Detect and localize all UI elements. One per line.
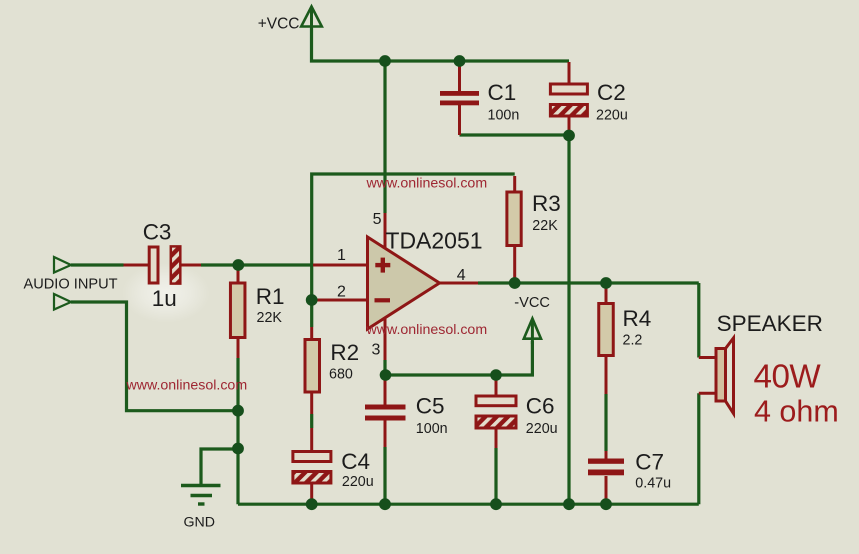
svg-text:40W: 40W	[754, 359, 822, 396]
svg-text:220u: 220u	[342, 474, 374, 490]
svg-text:5: 5	[373, 211, 382, 228]
svg-text:100n: 100n	[416, 421, 448, 437]
svg-text:1u: 1u	[152, 286, 177, 311]
svg-text:220u: 220u	[526, 421, 558, 437]
svg-text:C5: C5	[416, 394, 445, 419]
svg-text:C7: C7	[635, 450, 664, 475]
svg-text:22K: 22K	[257, 310, 283, 326]
svg-text:100n: 100n	[488, 107, 520, 123]
svg-text:C6: C6	[526, 394, 555, 419]
svg-text:C3: C3	[143, 220, 172, 245]
svg-text:4 ohm: 4 ohm	[754, 394, 839, 428]
svg-text:AUDIO INPUT: AUDIO INPUT	[24, 277, 118, 293]
svg-text:4: 4	[457, 267, 466, 284]
svg-text:R2: R2	[330, 340, 359, 365]
svg-text:R4: R4	[623, 306, 652, 331]
svg-text:22K: 22K	[532, 218, 558, 234]
svg-text:C1: C1	[488, 80, 517, 105]
svg-text:-VCC: -VCC	[514, 295, 550, 311]
svg-text:2: 2	[337, 284, 346, 301]
svg-text:+VCC: +VCC	[258, 16, 300, 33]
svg-text:GND: GND	[184, 515, 216, 531]
svg-text:680: 680	[329, 367, 353, 383]
svg-text:1: 1	[337, 247, 346, 264]
svg-text:www.onlinesol.com: www.onlinesol.com	[366, 175, 488, 191]
svg-text:C4: C4	[341, 449, 370, 474]
svg-text:www.onlinesol.com: www.onlinesol.com	[126, 377, 248, 393]
svg-text:2.2: 2.2	[623, 333, 643, 349]
svg-text:SPEAKER: SPEAKER	[717, 311, 823, 336]
svg-text:C2: C2	[597, 80, 626, 105]
svg-text:220u: 220u	[596, 107, 628, 123]
svg-text:TDA2051: TDA2051	[385, 227, 482, 253]
svg-text:R3: R3	[532, 191, 561, 216]
svg-text:www.onlinesol.com: www.onlinesol.com	[366, 322, 488, 338]
svg-text:0.47u: 0.47u	[635, 476, 671, 492]
svg-text:3: 3	[372, 342, 381, 359]
svg-text:R1: R1	[256, 284, 285, 309]
